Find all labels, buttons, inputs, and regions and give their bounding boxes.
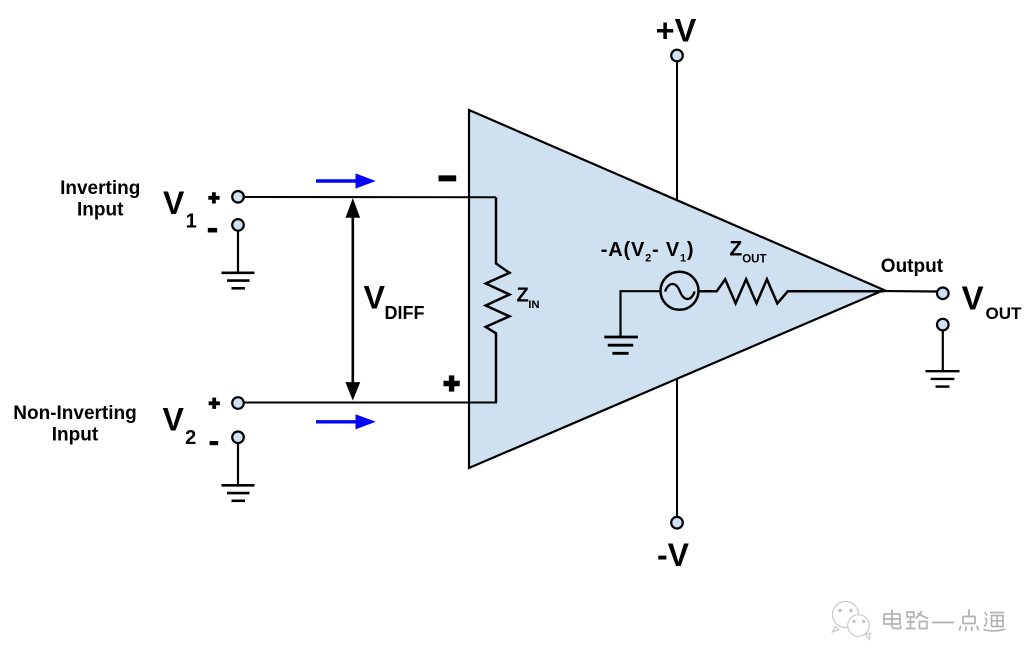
svg-text:V: V (962, 280, 984, 317)
svg-text:+V: +V (656, 13, 697, 49)
svg-text:IN: IN (528, 299, 539, 311)
svg-text:2: 2 (185, 427, 196, 449)
svg-text:Z: Z (729, 238, 742, 261)
svg-text:OUT: OUT (742, 253, 766, 265)
svg-text:Z: Z (517, 284, 529, 306)
svg-text:Non-Inverting: Non-Inverting (13, 403, 137, 424)
svg-text:1: 1 (186, 211, 197, 233)
svg-text:OUT: OUT (986, 304, 1023, 323)
svg-text:Input: Input (77, 199, 124, 220)
svg-text:Inverting: Inverting (60, 178, 140, 199)
svg-text:V: V (163, 185, 185, 221)
svg-text:Input: Input (52, 424, 99, 445)
svg-text:Output: Output (881, 256, 944, 277)
svg-text:V: V (364, 279, 386, 315)
svg-text:DIFF: DIFF (385, 303, 425, 323)
svg-text:-V: -V (657, 537, 690, 573)
svg-text:V: V (163, 402, 185, 438)
